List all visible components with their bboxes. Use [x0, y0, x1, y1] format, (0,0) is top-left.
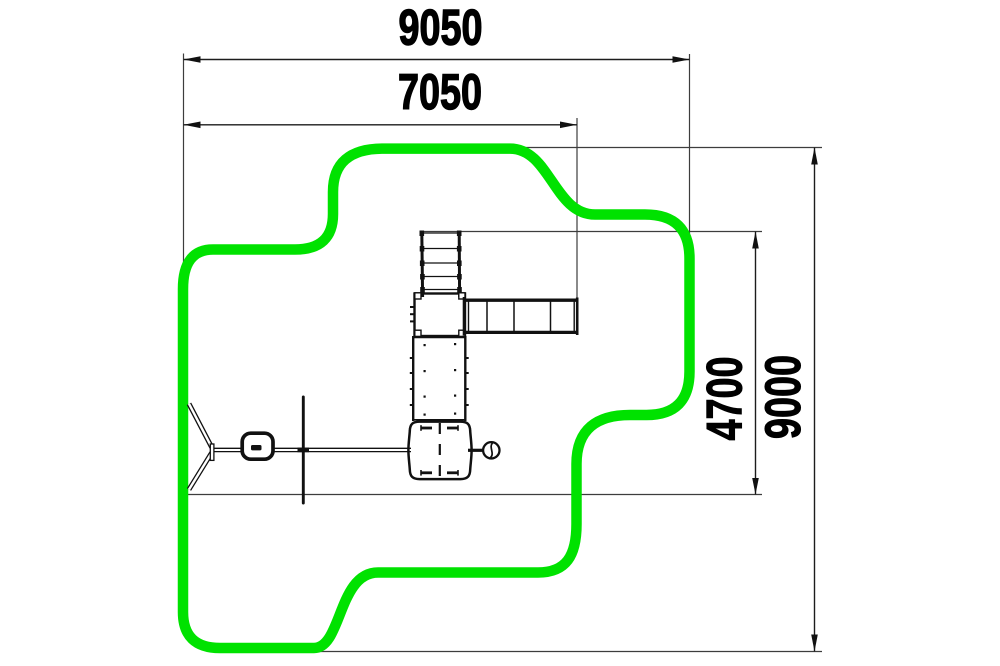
svg-text:7050: 7050	[398, 64, 482, 120]
svg-text:9050: 9050	[399, 0, 483, 55]
svg-text:4700: 4700	[697, 357, 753, 441]
svg-text:9000: 9000	[755, 355, 811, 439]
